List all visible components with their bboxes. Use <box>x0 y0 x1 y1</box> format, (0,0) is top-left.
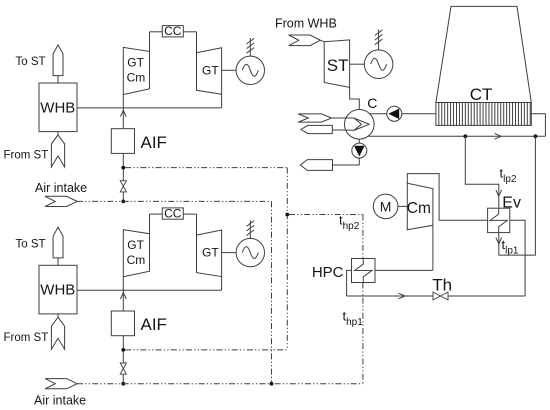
wire pump to condensate outlet flag <box>333 164 360 166</box>
wire turbine shaft to generator (unit 2) <box>222 252 237 254</box>
air intake arrow (unit 2) <box>45 379 77 389</box>
condenser internal dart symbol <box>354 118 369 131</box>
wire heating water line from AIF junction (unit 1) <box>125 167 287 169</box>
wire exhaust line WHB to GT (unit 1) <box>77 107 222 109</box>
grid connection symbol (ST) <box>375 30 383 50</box>
WHB boiler box (unit 1) <box>39 83 77 132</box>
svg-text:From ST: From ST <box>4 332 49 344</box>
wire t_hp2 down to HPC <box>362 215 364 259</box>
wire CW pump to cooling tower <box>402 113 436 115</box>
svg-text:AIF: AIF <box>141 133 167 152</box>
air inlet filter AIF box (unit 2) <box>111 311 134 336</box>
svg-text:From WHB: From WHB <box>275 17 337 31</box>
node t_lp2 takeoff <box>463 134 467 138</box>
svg-text:GT: GT <box>202 63 219 77</box>
wire heating water line from AIF junction (unit 2) <box>125 349 287 351</box>
wire t_lp2 from CT line to evaporator <box>465 136 499 208</box>
wire CT return line (condenser to tower basin) <box>368 135 545 137</box>
wire exhaust line WHB to GT (unit 2) <box>77 289 222 291</box>
wire compressor outlet riser (unit 1) <box>149 32 151 52</box>
steam/water outlet flag (condenser upper) <box>301 125 332 133</box>
To-ST steam outlet arrow (unit 1) <box>53 45 63 76</box>
wire condenser bottom to pump <box>358 139 360 143</box>
node t_lp1 return <box>534 134 538 138</box>
motor M circle <box>373 194 398 219</box>
svg-text:GT: GT <box>127 238 144 252</box>
wire t_hp2 branch horizontal <box>289 214 363 216</box>
condenser HPC box <box>352 259 376 283</box>
valve on air line (unit 2) <box>120 363 126 374</box>
condensate outlet flag <box>300 160 332 171</box>
wire vertical heating-water header <box>286 168 288 350</box>
generator G (ST) <box>364 50 393 79</box>
arrow air flow up into GT (unit 2) <box>120 293 126 299</box>
air inlet filter AIF box (unit 1) <box>111 129 134 154</box>
combustion chamber CC box (unit 1) <box>162 26 183 37</box>
cooling water inlet arrow (condenser) <box>298 114 331 122</box>
wire turbine outlet to exhaust line (unit 1) <box>221 94 223 108</box>
svg-text:From ST: From ST <box>4 150 49 162</box>
svg-text:Air intake: Air intake <box>34 393 86 407</box>
generator G (unit 1) <box>236 56 264 84</box>
wire t_lp1 from Ev back to CT line <box>499 136 536 255</box>
node t_hp2 branch junction <box>285 213 289 217</box>
wire CT outlet right side down <box>531 114 545 137</box>
compressor GT Cm (unit 1) <box>123 47 149 94</box>
wire steam arrow to ST <box>320 40 324 41</box>
svg-text:C: C <box>367 95 377 111</box>
wire Cm discharge down to HPC <box>432 225 434 270</box>
compressor Cm (heat pump) <box>407 183 433 230</box>
svg-text:To ST: To ST <box>16 56 46 68</box>
svg-text:GT: GT <box>127 56 144 70</box>
wire ST shaft to generator <box>350 63 365 65</box>
valve on air line (unit 1) <box>120 181 126 192</box>
grid connection symbol (unit 2) <box>247 220 255 238</box>
arrow t_lp1 out of Ev <box>496 238 502 244</box>
wire throttle line (HPC to Ev) <box>347 295 525 297</box>
wire Cm discharge into HPC right <box>375 269 433 271</box>
arrow air flow up into GT (unit 1) <box>120 110 126 116</box>
wire riser to CC (unit 1) <box>150 31 163 33</box>
wire air intake header (unit 1) <box>77 200 272 202</box>
svg-text:CT: CT <box>470 85 493 104</box>
svg-text:CC: CC <box>164 206 182 220</box>
evaporator Ev box <box>488 208 510 232</box>
svg-text:HPC: HPC <box>312 264 344 281</box>
wire motor to compressor Cm <box>398 205 407 207</box>
svg-text:CC: CC <box>164 24 182 38</box>
steam inlet arrow From WHB <box>289 35 321 46</box>
arrow flow right on CT return line <box>495 133 501 139</box>
svg-text:M: M <box>380 199 392 215</box>
wire condenser to CW pump <box>370 113 387 115</box>
wire ST exhaust to condenser <box>350 87 360 109</box>
svg-text:To ST: To ST <box>16 238 46 250</box>
svg-text:Cm: Cm <box>127 71 146 85</box>
wire WHB bottom to From-ST arrow (unit 1) <box>57 132 59 135</box>
wire junction to valve (unit 1) <box>122 169 124 180</box>
svg-text:GT: GT <box>202 246 219 260</box>
wire riser to CC (unit 2) <box>150 213 163 215</box>
cooling tower CT fill (hatched basin) <box>436 103 531 126</box>
grid connection symbol (unit 1) <box>247 38 255 56</box>
wire vertical air header riser <box>271 201 273 383</box>
node air intake junction (unit 2) <box>121 382 125 386</box>
HPC internal symbol <box>355 259 372 283</box>
wire WHB bottom to From-ST arrow (unit 2) <box>57 314 59 317</box>
air intake arrow (unit 1) <box>45 196 77 206</box>
svg-text:Ev: Ev <box>502 194 521 211</box>
svg-text:Air intake: Air intake <box>35 181 87 195</box>
wire turbine outlet to exhaust line (unit 2) <box>221 277 223 291</box>
wire compressor outlet riser (unit 2) <box>149 214 151 234</box>
WHB boiler box (unit 2) <box>39 265 77 314</box>
evaporator Ev internal symbol <box>490 208 507 232</box>
condenser C circle <box>345 110 375 140</box>
wire To-ST arrow to WHB top (unit 1) <box>57 76 59 83</box>
turbine GT (unit 2) <box>197 230 222 277</box>
node air intake junction (unit 1) <box>121 200 125 204</box>
cooling tower CT shell <box>436 6 531 102</box>
wire turbine inlet drop (unit 2) <box>196 214 198 235</box>
compressor GT Cm (unit 2) <box>123 230 149 277</box>
combustion chamber CC box (unit 2) <box>162 208 183 219</box>
wire condenser to outlet flag <box>332 129 354 131</box>
From-ST inlet arrow (unit 1) <box>51 135 64 167</box>
node air header junction bottom <box>270 382 274 386</box>
wire valve to air intake line (unit 1) <box>122 192 124 200</box>
wire HPC left to throttle line <box>347 270 352 296</box>
pump condensate (P) <box>352 143 367 158</box>
wire Ev to Cm suction duct <box>407 174 487 221</box>
turbine GT (unit 1) <box>197 48 222 95</box>
wire pump down <box>358 158 360 165</box>
wire throttle line up to Ev right <box>510 220 525 296</box>
generator G (unit 2) <box>236 238 264 266</box>
wire valve to air intake line (unit 2) <box>122 374 124 382</box>
wire t_hp1 from HPC down <box>362 283 364 384</box>
wire turbine inlet drop (unit 1) <box>196 32 198 53</box>
wire AIF to compressor inlet (unit 2) <box>122 277 124 311</box>
svg-text:WHB: WHB <box>40 99 75 116</box>
wire inlet arrow to condenser <box>332 117 354 119</box>
arrow flow right on throttle line <box>399 293 405 299</box>
wire AIF down to junction (unit 2) <box>122 336 124 348</box>
node AIF junction (unit 1) <box>121 166 125 170</box>
From-ST inlet arrow (unit 2) <box>51 317 64 349</box>
steam turbine ST <box>324 40 349 88</box>
pump cooling water (CW) <box>387 106 402 121</box>
arrow t_lp2 into Ev <box>496 190 502 196</box>
wire AIF down to junction (unit 1) <box>122 153 124 165</box>
svg-text:ST: ST <box>327 56 349 75</box>
wire CC to turbine (unit 2) <box>183 213 196 215</box>
wire junction to valve (unit 2) <box>122 352 124 363</box>
svg-text:AIF: AIF <box>141 315 167 334</box>
svg-text:WHB: WHB <box>40 282 75 299</box>
wire CC to turbine (unit 1) <box>183 31 196 33</box>
wire AIF to compressor inlet (unit 1) <box>122 95 124 129</box>
wire turbine shaft to generator (unit 1) <box>222 69 237 71</box>
wire air intake header (unit 2) / t_hp1 return <box>77 383 363 385</box>
To-ST steam outlet arrow (unit 2) <box>53 227 63 258</box>
svg-text:Cm: Cm <box>407 200 431 217</box>
svg-text:Th: Th <box>432 275 452 294</box>
svg-text:Cm: Cm <box>127 253 146 267</box>
node AIF junction (unit 2) <box>121 348 125 352</box>
valve Th throttle <box>433 292 448 300</box>
wire To-ST arrow to WHB top (unit 2) <box>57 258 59 265</box>
